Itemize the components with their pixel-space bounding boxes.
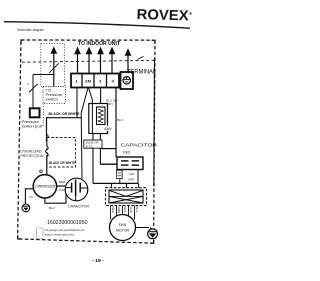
- svg-text:RED: RED: [59, 180, 66, 184]
- svg-text:RED: RED: [123, 150, 131, 154]
- earth wire on right border: [153, 58, 156, 186]
- svg-text:WHT: WHT: [128, 178, 135, 182]
- arrow above terminal 2N: [86, 47, 93, 74]
- junction mark: [40, 170, 43, 173]
- svg-text:BLACK OR WHITE: BLACK OR WHITE: [49, 112, 81, 116]
- dotted link line: [42, 104, 44, 127]
- svg-text:YLW: YLW: [129, 207, 133, 213]
- wire fan motor to ground: [136, 227, 150, 229]
- BLACK OR WHITE wire horizontal: [47, 117, 82, 119]
- switch contact on pressure-switch branch: [49, 63, 58, 73]
- wire color labels: [111, 207, 139, 214]
- svg-text:FAN: FAN: [119, 223, 127, 227]
- run capacitor circle: [65, 178, 88, 201]
- BLK wire from terminal 4: [115, 88, 117, 158]
- wire down to pressure port: [32, 75, 34, 109]
- arrow above terminal 4: [109, 47, 116, 74]
- ground symbol right: [148, 228, 158, 239]
- svg-text:BLU: BLU: [49, 206, 55, 210]
- arrow above earth terminal: [125, 48, 132, 72]
- dotted enclosure around pressure switch arrow: [41, 44, 65, 87]
- terminal block XT1: [71, 74, 119, 88]
- wire fan-motor bus horizontal: [93, 182, 139, 184]
- svg-text:YLW: YLW: [128, 172, 134, 176]
- svg-text:4WV: 4WV: [104, 127, 112, 131]
- wire relay box down to fan-motor bus: [92, 148, 94, 183]
- wire bus drop into fan box left: [111, 183, 113, 188]
- svg-text:The design and specifications: The design and specifications are: [45, 228, 85, 232]
- fan motor junction dashed box: [106, 188, 147, 206]
- svg-text:switch: switch: [46, 98, 59, 102]
- overload protector element: [46, 135, 49, 157]
- wire terminal 2N to 4WV housing (right branch of split): [88, 88, 92, 104]
- wire to compressor: [46, 155, 48, 176]
- wire 4WV housing to relay box (left stub): [92, 134, 94, 141]
- svg-text:Schematic diagram: Schematic diagram: [17, 27, 45, 32]
- overload protector dashed box: [47, 138, 76, 168]
- wire down to overload: [46, 117, 48, 141]
- border corner ticks: [18, 40, 155, 243]
- wire terminal3 to 4WV coil: [100, 88, 102, 108]
- wire left from switch: [33, 74, 54, 76]
- svg-text:ROVEX: ROVEX: [136, 7, 189, 24]
- svg-text:ORN: ORN: [117, 207, 121, 214]
- svg-text:TO INDOOR UNIT: TO INDOOR UNIT: [78, 41, 121, 47]
- svg-text:BLACK OR WHITE: BLACK OR WHITE: [49, 161, 76, 165]
- indoor/outdoor separation dashed line: [22, 60, 154, 62]
- wire junction to BLK wire: [102, 148, 117, 150]
- wire 4WV housing to relay box (right stub): [99, 134, 101, 141]
- arrow to indoor (pressure switch branch): [50, 46, 57, 86]
- capacitor box lower-left connector: [117, 170, 123, 184]
- compressor motor: [33, 175, 56, 198]
- svg-text:16022000001950: 16022000001950: [47, 220, 88, 226]
- wire compressor to left ground: [25, 189, 33, 204]
- svg-text:CAPACITOR: CAPACITOR: [121, 143, 158, 148]
- header underline: [4, 22, 190, 29]
- wire terminal1 down: [76, 88, 78, 118]
- wire compressor to capacitor: [56, 185, 65, 187]
- wire compressor bottom to capacitor: [45, 194, 66, 203]
- ROVEX logo: [136, 7, 191, 24]
- ground symbol left: [22, 204, 30, 212]
- svg-text:BLU: BLU: [135, 207, 139, 213]
- wire bus drop into fan box centre: [126, 183, 128, 190]
- svg-text:P.T.C: P.T.C: [86, 144, 94, 148]
- wire relay box down toward capacitor box: [99, 148, 101, 164]
- wires fan box to fan motor: [111, 206, 135, 220]
- svg-text:TERMINAL: TERMINAL: [127, 68, 157, 75]
- relay label box: [84, 140, 102, 148]
- T31 pressure switch dotted box: [43, 87, 66, 104]
- svg-text:Pressure: Pressure: [22, 120, 40, 124]
- svg-text:subject to change without noti: subject to change without notice: [45, 232, 75, 236]
- arrow above terminal 1: [74, 47, 81, 74]
- svg-text:BLK: BLK: [117, 118, 123, 122]
- svg-text:- 19 -: - 19 -: [92, 258, 104, 264]
- outdoor unit dashed border: [18, 40, 155, 243]
- wire terminal 2N to run capacitor (left branch of split): [81, 88, 88, 179]
- svg-text:CAPACITOR: CAPACITOR: [68, 205, 90, 209]
- wire bus drop into fan box right: [138, 183, 140, 188]
- wire cap box to fan box: [137, 170, 139, 184]
- svg-text:MOTOR: MOTOR: [116, 229, 129, 233]
- svg-text:2N: 2N: [85, 79, 91, 84]
- svg-text:BLK: BLK: [123, 207, 127, 213]
- svg-text:OVERLOAD: OVERLOAD: [21, 149, 42, 153]
- wire into capacitor box left side: [100, 163, 117, 165]
- svg-text:YG: YG: [29, 195, 34, 199]
- earth terminal box: [121, 72, 134, 89]
- fan motor: [110, 215, 136, 241]
- svg-text:switch port: switch port: [22, 125, 43, 129]
- svg-text:RED: RED: [111, 207, 115, 214]
- arrow above terminal 3: [97, 47, 104, 74]
- svg-text:YLW: YLW: [58, 188, 64, 192]
- svg-text:PROTECTION: PROTECTION: [21, 154, 44, 158]
- note dotted box: [37, 228, 44, 239]
- leader tick: [138, 56, 144, 59]
- svg-text:Pressure: Pressure: [46, 93, 63, 97]
- pressure switch port box: [30, 108, 40, 117]
- 4WV label: [103, 126, 111, 131]
- switch contact on port branch: [29, 84, 38, 92]
- 4WV solenoid coil: [89, 104, 108, 134]
- fan winding box: [109, 190, 143, 203]
- capacitor box: [117, 157, 143, 170]
- svg-text:COMPRESSOR: COMPRESSOR: [35, 185, 56, 189]
- svg-text:T31: T31: [46, 89, 52, 93]
